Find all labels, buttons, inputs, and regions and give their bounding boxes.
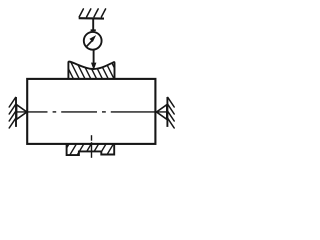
left center: back line <box>15 97 17 127</box>
indicator clamp flare <box>91 29 96 31</box>
stylus arrow head <box>91 63 96 71</box>
right center: cone triangle <box>157 105 167 120</box>
right center: back line <box>166 97 168 127</box>
saddle block hatching <box>64 59 121 81</box>
left center: cone triangle <box>17 105 27 120</box>
dial needle <box>87 41 92 47</box>
fixed stand hatching (ground) <box>79 9 105 17</box>
support block hatching <box>61 142 122 157</box>
dial gauge U1 <box>84 32 102 50</box>
right center: hatching <box>168 97 174 128</box>
saddle block outline <box>68 62 114 79</box>
fixed stand bar <box>79 17 104 19</box>
cylinder body <box>27 79 155 144</box>
stylus stem <box>93 50 95 64</box>
indicator stem <box>92 18 94 31</box>
support block outline <box>67 144 115 155</box>
horizontal centerline <box>16 111 167 113</box>
left center: hatching <box>9 97 15 128</box>
vertical centerline <box>91 135 93 158</box>
